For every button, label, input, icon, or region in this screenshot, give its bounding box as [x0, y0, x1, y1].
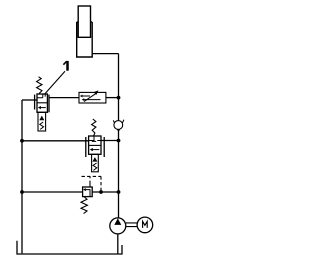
- wire flow control to riser: [106, 97, 119, 99]
- relief valve pilot dashed lines: [82, 176, 102, 191]
- valve 1 flow arrow: [41, 107, 46, 109]
- label 1: [66, 61, 69, 71]
- relief valve spring: [81, 197, 87, 214]
- valve 2 body: [89, 136, 101, 154]
- valve 2 flow arrow: [92, 149, 99, 151]
- wire valve1 left port: [22, 99, 37, 101]
- check valve ball: [114, 121, 123, 130]
- valve 1 right tab: [48, 95, 50, 113]
- node junction riser/relief line: [117, 190, 121, 194]
- valve 1 divider: [37, 102, 47, 104]
- cylinder body: [77, 22, 93, 57]
- motor label M: [143, 221, 148, 228]
- tank: [17, 241, 122, 254]
- valve 1 body: [37, 94, 47, 112]
- wire relief right port to riser: [92, 191, 118, 193]
- node junction riser/flow-control: [117, 96, 121, 100]
- flow control valve body: [79, 92, 106, 103]
- wire relief line left: [22, 191, 83, 193]
- wire pump suction: [117, 234, 119, 254]
- pump flow triangle: [114, 218, 121, 225]
- cylinder plunger rod: [78, 6, 90, 37]
- flow control arrow a: [82, 95, 90, 97]
- label 1 leader line: [44, 71, 65, 94]
- valve 1 pilot arrow: [39, 116, 44, 121]
- flow control arrow b: [84, 99, 101, 101]
- valve 2 pilot spring: [93, 163, 97, 170]
- valve 2 blocked port marks: [89, 136, 101, 141]
- valve 2 pilot arrow: [92, 157, 97, 162]
- relief valve top stub: [89, 184, 91, 187]
- node junction riser/valve2: [117, 139, 121, 143]
- check valve seat: [113, 120, 124, 132]
- pump P circle: [110, 218, 126, 234]
- wire to valve2 left port: [22, 140, 89, 142]
- node junction left line/valve2: [20, 139, 24, 143]
- relief valve arrow: [85, 190, 90, 197]
- valve 2 spring: [92, 119, 96, 136]
- wire valve1 right port to flow control: [49, 97, 79, 99]
- valve 2 pilot box: [92, 154, 99, 172]
- valve 1 left tab: [34, 95, 36, 110]
- valve 1 pilot box: [38, 112, 46, 131]
- wire cylinder outlet: [92, 53, 118, 55]
- valve 1 blocked port marks: [37, 94, 45, 98]
- valve 2 left tab: [85, 137, 87, 157]
- valve 2 divider: [89, 144, 101, 146]
- flow control adjust arrow: [84, 94, 96, 102]
- valve 1 spring: [37, 77, 42, 94]
- valve 1 pilot spring: [40, 122, 44, 129]
- motor shaft: [126, 223, 137, 227]
- motor M circle: [137, 217, 153, 233]
- wire left tank line: [21, 100, 23, 253]
- valve 2 right tab: [103, 137, 105, 157]
- wire riser upper: [118, 54, 120, 121]
- node pilot tap: [99, 190, 103, 194]
- wire riser lower: [118, 131, 120, 218]
- node junction left line/relief: [20, 190, 24, 194]
- relief valve body: [83, 187, 93, 197]
- wire valve2 right port to riser: [101, 140, 119, 142]
